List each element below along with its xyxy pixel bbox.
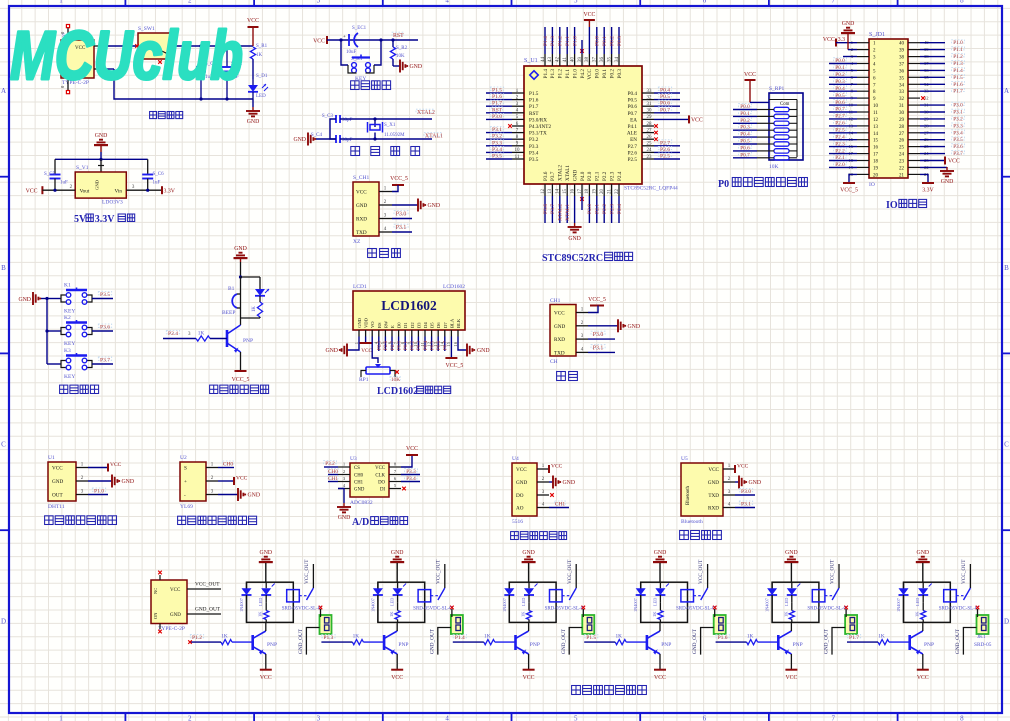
svg-text:4: 4 bbox=[445, 715, 449, 721]
svg-text:ADC0832: ADC0832 bbox=[350, 500, 373, 506]
svg-text:3.3V: 3.3V bbox=[95, 214, 116, 225]
svg-text:P1.7: P1.7 bbox=[492, 101, 502, 107]
svg-text:P2.1: P2.1 bbox=[595, 171, 601, 181]
svg-text:GND_OUT: GND_OUT bbox=[298, 628, 304, 654]
svg-text:26: 26 bbox=[647, 135, 653, 140]
svg-text:P1.1: P1.1 bbox=[565, 69, 571, 79]
svg-text:P2.5: P2.5 bbox=[660, 154, 670, 160]
svg-text:GND: GND bbox=[18, 297, 31, 303]
svg-text:P2.3: P2.3 bbox=[609, 171, 615, 181]
svg-text:D1: D1 bbox=[403, 322, 408, 328]
svg-text:S_JD1: S_JD1 bbox=[869, 32, 885, 38]
svg-text:P1.2: P1.2 bbox=[558, 36, 564, 46]
svg-text:P3.0: P3.0 bbox=[953, 103, 963, 109]
svg-text:VCC: VCC bbox=[247, 18, 259, 24]
svg-text:MCUclub: MCUclub bbox=[10, 17, 243, 94]
svg-text:1K: 1K bbox=[915, 611, 920, 617]
svg-text:CH0: CH0 bbox=[354, 474, 364, 479]
svg-text:P1.2: P1.2 bbox=[192, 635, 202, 641]
svg-text:S_V1: S_V1 bbox=[76, 165, 89, 171]
svg-text:GND: GND bbox=[941, 179, 954, 185]
svg-text:4: 4 bbox=[445, 0, 449, 5]
svg-text:1K: 1K bbox=[252, 306, 257, 312]
svg-text:GND: GND bbox=[391, 550, 404, 556]
svg-text:P3.1: P3.1 bbox=[396, 225, 407, 231]
svg-text:GND: GND bbox=[477, 348, 490, 354]
svg-text:1: 1 bbox=[59, 715, 63, 721]
svg-text:RST: RST bbox=[393, 33, 404, 39]
svg-text:VCC_OUT: VCC_OUT bbox=[830, 559, 836, 584]
svg-text:GND_OUT: GND_OUT bbox=[561, 628, 567, 654]
svg-text:7: 7 bbox=[831, 715, 835, 721]
svg-text:TYPE-C-2P: TYPE-C-2P bbox=[158, 626, 185, 632]
svg-text:LDO3V3: LDO3V3 bbox=[102, 200, 123, 206]
svg-text:35: 35 bbox=[899, 76, 905, 81]
svg-text:VCC_OUT: VCC_OUT bbox=[195, 582, 220, 588]
svg-text:P1.3: P1.3 bbox=[550, 69, 556, 79]
svg-text:3: 3 bbox=[317, 0, 321, 5]
svg-text:P3.5: P3.5 bbox=[100, 292, 110, 298]
svg-text:VCC: VCC bbox=[523, 675, 535, 681]
svg-text:GND: GND bbox=[749, 480, 762, 486]
svg-text:P1.0: P1.0 bbox=[572, 69, 578, 79]
svg-text:P1.3: P1.3 bbox=[550, 36, 556, 46]
svg-text:21: 21 bbox=[899, 173, 905, 178]
svg-text:P3.7: P3.7 bbox=[550, 204, 556, 214]
svg-text:5: 5 bbox=[574, 715, 578, 721]
svg-text:1K: 1K bbox=[878, 634, 885, 640]
svg-text:VCC_5: VCC_5 bbox=[390, 176, 408, 182]
svg-text:P1.3: P1.3 bbox=[953, 61, 963, 67]
svg-text:2: 2 bbox=[188, 0, 192, 5]
svg-text:VCC: VCC bbox=[917, 675, 929, 681]
svg-text:P2.3: P2.3 bbox=[835, 141, 845, 147]
svg-text:8: 8 bbox=[960, 0, 964, 5]
svg-text:P3.3: P3.3 bbox=[529, 144, 539, 150]
svg-text:27: 27 bbox=[899, 132, 905, 137]
svg-text:13: 13 bbox=[873, 125, 879, 130]
svg-text:K2: K2 bbox=[64, 315, 71, 321]
svg-text:P3.3: P3.3 bbox=[406, 469, 416, 475]
svg-text:P3.1: P3.1 bbox=[593, 346, 604, 352]
svg-text:S_C4: S_C4 bbox=[311, 133, 323, 138]
svg-text:37: 37 bbox=[899, 63, 905, 68]
svg-text:P3.0: P3.0 bbox=[741, 489, 751, 495]
svg-text:33: 33 bbox=[647, 89, 653, 94]
svg-text:43: 43 bbox=[548, 57, 553, 63]
svg-text:GND: GND bbox=[568, 236, 581, 242]
svg-text:GND: GND bbox=[170, 613, 181, 618]
svg-text:RXD: RXD bbox=[356, 217, 367, 223]
svg-text:P2.0: P2.0 bbox=[587, 171, 593, 181]
svg-text:GND: GND bbox=[410, 64, 423, 70]
svg-text:22: 22 bbox=[615, 189, 620, 195]
svg-text:VCC: VCC bbox=[691, 117, 703, 123]
svg-text:GND: GND bbox=[95, 179, 100, 190]
svg-text:P0.2: P0.2 bbox=[740, 118, 750, 124]
svg-text:GND: GND bbox=[842, 21, 855, 27]
svg-text:VO: VO bbox=[370, 321, 375, 328]
svg-text:P0.4: P0.4 bbox=[740, 132, 750, 138]
svg-text:17: 17 bbox=[873, 153, 879, 158]
svg-text:VCC_OUT: VCC_OUT bbox=[304, 559, 310, 584]
svg-text:42: 42 bbox=[556, 57, 561, 63]
svg-text:P2.2: P2.2 bbox=[835, 148, 845, 154]
svg-text:11.0592M: 11.0592M bbox=[384, 133, 405, 138]
svg-text:P3.2: P3.2 bbox=[492, 134, 502, 140]
svg-text:VCC: VCC bbox=[375, 466, 385, 471]
svg-text:P3.0: P3.0 bbox=[396, 212, 407, 218]
svg-text:27: 27 bbox=[647, 128, 653, 133]
svg-text:31: 31 bbox=[899, 104, 905, 109]
svg-text:RP1: RP1 bbox=[359, 377, 369, 383]
svg-text:P1.5: P1.5 bbox=[586, 635, 596, 641]
svg-text:1K: 1K bbox=[258, 611, 263, 617]
svg-text:P0: P0 bbox=[718, 179, 729, 190]
svg-text:P1.2: P1.2 bbox=[558, 69, 564, 79]
svg-text:VCC: VCC bbox=[583, 12, 595, 18]
svg-text:XTAL2: XTAL2 bbox=[558, 204, 564, 221]
svg-text:XTAL2: XTAL2 bbox=[417, 110, 435, 116]
svg-text:P3.4: P3.4 bbox=[953, 130, 963, 136]
svg-text:GND: GND bbox=[248, 493, 261, 499]
svg-text:VCC: VCC bbox=[26, 189, 38, 195]
svg-text:P0.6: P0.6 bbox=[740, 145, 750, 151]
svg-text:P1.1: P1.1 bbox=[953, 47, 963, 53]
svg-text:25: 25 bbox=[899, 146, 905, 151]
svg-text:P0.6: P0.6 bbox=[835, 100, 845, 106]
svg-text:S_R1: S_R1 bbox=[256, 44, 268, 49]
svg-text:VDD: VDD bbox=[364, 317, 369, 328]
svg-text:VCC_5: VCC_5 bbox=[588, 297, 606, 303]
svg-text:23: 23 bbox=[899, 160, 905, 165]
svg-text:E: E bbox=[390, 325, 395, 328]
svg-text:44: 44 bbox=[541, 57, 546, 63]
svg-text:GND: GND bbox=[516, 480, 527, 486]
svg-text:7: 7 bbox=[831, 0, 835, 5]
svg-text:CH0: CH0 bbox=[328, 469, 338, 475]
svg-text:P1.4: P1.4 bbox=[543, 69, 549, 79]
svg-text:1K: 1K bbox=[652, 611, 657, 617]
svg-text:P0.3: P0.3 bbox=[835, 79, 845, 85]
svg-text:39: 39 bbox=[578, 57, 583, 63]
svg-text:GND: GND bbox=[917, 550, 930, 556]
svg-text:P3.5: P3.5 bbox=[953, 137, 963, 143]
svg-text:38: 38 bbox=[585, 57, 590, 63]
svg-text:RST: RST bbox=[529, 111, 539, 117]
svg-text:RST: RST bbox=[492, 107, 503, 113]
svg-text:38: 38 bbox=[899, 56, 905, 61]
svg-text:CLK: CLK bbox=[375, 474, 385, 479]
svg-text:VCC: VCC bbox=[708, 467, 719, 473]
svg-text:DI: DI bbox=[380, 488, 385, 493]
svg-text:GND: GND bbox=[428, 203, 441, 209]
svg-text:1N4007: 1N4007 bbox=[502, 597, 507, 612]
svg-text:8: 8 bbox=[960, 715, 964, 721]
svg-text:SRD-05VDC-SL-C: SRD-05VDC-SL-C bbox=[939, 607, 979, 612]
svg-text:P3.6: P3.6 bbox=[543, 171, 549, 181]
svg-text:P3.0: P3.0 bbox=[593, 332, 604, 338]
svg-text:1N4007: 1N4007 bbox=[765, 597, 770, 612]
svg-text:P3.2: P3.2 bbox=[325, 461, 335, 467]
svg-text:SRD-05VDC-SL-C: SRD-05VDC-SL-C bbox=[807, 607, 847, 612]
svg-text:P3.5: P3.5 bbox=[529, 157, 539, 163]
svg-text:VCC: VCC bbox=[356, 190, 367, 196]
svg-text:18: 18 bbox=[873, 160, 879, 165]
svg-text:P4.1: P4.1 bbox=[628, 124, 638, 130]
svg-text:VCC: VCC bbox=[391, 675, 403, 681]
svg-text:P1.5: P1.5 bbox=[953, 75, 963, 81]
svg-text:B1: B1 bbox=[228, 286, 235, 292]
svg-text:1K: 1K bbox=[389, 611, 394, 617]
svg-text:P1.2: P1.2 bbox=[953, 54, 963, 60]
svg-text:15: 15 bbox=[873, 139, 879, 144]
svg-text:P1.4: P1.4 bbox=[455, 635, 465, 641]
svg-text:VCC: VCC bbox=[236, 476, 248, 482]
svg-text:P4.0: P4.0 bbox=[580, 171, 586, 181]
svg-text:+: + bbox=[184, 479, 187, 485]
svg-text:IO: IO bbox=[869, 182, 875, 188]
svg-text:STC89C52RC: STC89C52RC bbox=[542, 253, 603, 264]
svg-text:PNP: PNP bbox=[243, 338, 253, 344]
svg-text:GND_OUT: GND_OUT bbox=[955, 628, 961, 654]
svg-text:P2.5: P2.5 bbox=[628, 157, 638, 163]
svg-text:VCC: VCC bbox=[170, 588, 181, 593]
svg-text:VCC_OUT: VCC_OUT bbox=[698, 559, 704, 584]
svg-text:GND: GND bbox=[357, 317, 362, 328]
svg-text:CH: CH bbox=[550, 359, 558, 365]
svg-text:1K: 1K bbox=[256, 53, 263, 58]
svg-text:P1.5: P1.5 bbox=[529, 91, 539, 97]
svg-text:P3.1: P3.1 bbox=[741, 502, 751, 508]
svg-text:RXD: RXD bbox=[708, 506, 719, 512]
svg-text:32: 32 bbox=[647, 95, 653, 100]
svg-text:GND: GND bbox=[52, 479, 63, 485]
svg-text:P2.5: P2.5 bbox=[835, 128, 845, 134]
svg-text:1K: 1K bbox=[783, 611, 788, 617]
svg-text:10: 10 bbox=[515, 148, 521, 153]
svg-text:Vout: Vout bbox=[80, 189, 90, 195]
svg-text:GND: GND bbox=[785, 550, 798, 556]
svg-text:1N4007: 1N4007 bbox=[370, 597, 375, 612]
svg-text:P3.7: P3.7 bbox=[100, 358, 110, 364]
svg-text:D2: D2 bbox=[410, 322, 415, 328]
svg-text:P3.4: P3.4 bbox=[406, 476, 416, 482]
svg-text:P1.3: P1.3 bbox=[323, 635, 333, 641]
svg-text:34: 34 bbox=[615, 57, 620, 63]
svg-text:GND: GND bbox=[654, 550, 667, 556]
svg-text:10uF: 10uF bbox=[346, 50, 357, 55]
svg-text:GND: GND bbox=[234, 246, 247, 252]
svg-text:11: 11 bbox=[873, 111, 878, 116]
svg-text:1: 1 bbox=[59, 0, 63, 5]
svg-text:1K: 1K bbox=[221, 634, 228, 640]
svg-text:28: 28 bbox=[647, 122, 653, 127]
svg-text:20: 20 bbox=[873, 173, 879, 178]
svg-text:P0.0: P0.0 bbox=[595, 36, 601, 46]
svg-text:P0.5: P0.5 bbox=[628, 98, 638, 104]
svg-text:CH0: CH0 bbox=[223, 462, 234, 468]
svg-text:LCD1: LCD1 bbox=[353, 284, 367, 290]
svg-text:GND_OUT: GND_OUT bbox=[195, 607, 221, 613]
svg-text:BLK: BLK bbox=[456, 318, 461, 328]
svg-text:P0.5: P0.5 bbox=[835, 93, 845, 99]
svg-text:S_C3: S_C3 bbox=[322, 114, 334, 119]
svg-text:16: 16 bbox=[873, 146, 879, 151]
svg-text:1uF: 1uF bbox=[153, 181, 161, 186]
svg-text:A: A bbox=[1004, 87, 1009, 95]
svg-text:VCC_5: VCC_5 bbox=[840, 188, 858, 194]
svg-text:S_C6: S_C6 bbox=[153, 172, 165, 177]
svg-text:S_C5: S_C5 bbox=[44, 172, 56, 177]
svg-text:GND_OUT: GND_OUT bbox=[824, 628, 830, 654]
svg-text:15: 15 bbox=[563, 189, 568, 195]
svg-text:VCC_OUT: VCC_OUT bbox=[961, 559, 967, 584]
svg-text:P2.7: P2.7 bbox=[835, 114, 845, 120]
svg-text:VCC: VCC bbox=[406, 446, 418, 452]
svg-text:XTAL2: XTAL2 bbox=[558, 165, 564, 181]
svg-text:PNP: PNP bbox=[924, 642, 934, 648]
svg-text:SRD-05: SRD-05 bbox=[974, 642, 992, 648]
svg-text:10K: 10K bbox=[391, 377, 400, 383]
svg-text:OUT: OUT bbox=[52, 493, 63, 499]
svg-text:GND: GND bbox=[95, 133, 108, 139]
svg-text:5V: 5V bbox=[74, 214, 87, 225]
svg-text:NC: NC bbox=[153, 588, 158, 594]
svg-text:P0.2: P0.2 bbox=[609, 69, 615, 79]
svg-text:EA: EA bbox=[630, 117, 637, 123]
svg-text:P0.0: P0.0 bbox=[740, 104, 750, 110]
svg-text:P3.0/RX: P3.0/RX bbox=[529, 117, 547, 123]
svg-text:IO: IO bbox=[886, 200, 898, 211]
svg-text:P3.5: P3.5 bbox=[492, 154, 502, 160]
svg-text:U5: U5 bbox=[681, 456, 688, 462]
svg-text:GND_OUT: GND_OUT bbox=[429, 628, 435, 654]
svg-text:P1.7: P1.7 bbox=[849, 635, 859, 641]
svg-text:16: 16 bbox=[453, 341, 458, 346]
svg-text:D7: D7 bbox=[443, 322, 448, 328]
svg-text:36: 36 bbox=[600, 57, 605, 63]
svg-text:P0.2: P0.2 bbox=[835, 72, 845, 78]
svg-text:29: 29 bbox=[647, 115, 653, 120]
svg-text:K1: K1 bbox=[64, 283, 71, 289]
svg-text:P2.1: P2.1 bbox=[595, 204, 601, 214]
svg-text:GND: GND bbox=[293, 137, 306, 143]
svg-text:LED: LED bbox=[784, 598, 789, 606]
svg-text:32: 32 bbox=[899, 97, 905, 102]
svg-text:P3.2: P3.2 bbox=[529, 137, 539, 143]
svg-text:P0.3: P0.3 bbox=[617, 36, 623, 46]
svg-text:P2.4: P2.4 bbox=[835, 134, 845, 140]
svg-text:VCC: VCC bbox=[737, 464, 749, 470]
svg-text:VCC: VCC bbox=[110, 462, 122, 468]
svg-text:P1.0: P1.0 bbox=[572, 36, 578, 46]
svg-text:P1.0: P1.0 bbox=[94, 489, 104, 495]
svg-text:YL69: YL69 bbox=[180, 504, 193, 510]
svg-text:P3.7: P3.7 bbox=[550, 171, 556, 181]
svg-text:25: 25 bbox=[647, 142, 653, 147]
svg-text:P2.0: P2.0 bbox=[587, 204, 593, 214]
svg-text:C: C bbox=[1004, 441, 1009, 449]
svg-text:TXD: TXD bbox=[356, 230, 367, 236]
svg-text:19: 19 bbox=[593, 189, 598, 195]
svg-text:P4.2: P4.2 bbox=[580, 69, 586, 79]
svg-text:GND: GND bbox=[122, 479, 135, 485]
svg-text:12: 12 bbox=[541, 189, 546, 195]
svg-text:+: + bbox=[343, 35, 346, 40]
svg-text:Bluetooth: Bluetooth bbox=[686, 485, 691, 505]
svg-text:VCC: VCC bbox=[785, 675, 797, 681]
svg-text:B: B bbox=[1, 264, 6, 272]
svg-text:P0.7: P0.7 bbox=[740, 152, 750, 158]
svg-text:40: 40 bbox=[570, 57, 575, 63]
svg-text:GND_OUT: GND_OUT bbox=[692, 628, 698, 654]
svg-text:PNP: PNP bbox=[793, 642, 803, 648]
svg-text:LCD1602: LCD1602 bbox=[377, 386, 418, 397]
svg-text:GND: GND bbox=[572, 170, 578, 181]
svg-text:GND: GND bbox=[356, 203, 367, 209]
svg-text:GND: GND bbox=[354, 488, 365, 493]
svg-text:A/D: A/D bbox=[352, 517, 369, 528]
svg-text:P3.7: P3.7 bbox=[953, 151, 963, 157]
svg-text:GND: GND bbox=[708, 480, 719, 486]
svg-text:24: 24 bbox=[899, 153, 905, 158]
svg-text:VCC: VCC bbox=[313, 39, 325, 45]
svg-text:S_EC1: S_EC1 bbox=[352, 26, 367, 31]
svg-text:CH1: CH1 bbox=[555, 502, 566, 508]
svg-text:P1.1: P1.1 bbox=[565, 36, 571, 46]
svg-text:13: 13 bbox=[548, 189, 553, 195]
svg-text:34: 34 bbox=[899, 83, 905, 88]
svg-text:LED: LED bbox=[256, 94, 266, 99]
svg-text:SRD-05VDC-SL-C: SRD-05VDC-SL-C bbox=[282, 607, 322, 612]
svg-text:RXD: RXD bbox=[554, 337, 565, 343]
svg-text:D: D bbox=[1004, 618, 1009, 626]
svg-text:GND: GND bbox=[338, 515, 351, 521]
svg-text:C: C bbox=[1, 441, 6, 449]
svg-text:1K: 1K bbox=[615, 634, 622, 640]
svg-text:41: 41 bbox=[563, 57, 568, 63]
svg-text:LED: LED bbox=[258, 598, 263, 606]
svg-text:15: 15 bbox=[446, 341, 451, 346]
svg-text:33: 33 bbox=[899, 90, 905, 95]
svg-text:10K: 10K bbox=[769, 164, 779, 170]
svg-text:LED: LED bbox=[521, 598, 526, 606]
svg-text:STC89C52RC_LQFP44: STC89C52RC_LQFP44 bbox=[624, 186, 678, 192]
svg-text:VCC: VCC bbox=[516, 467, 527, 473]
svg-text:GND: GND bbox=[247, 119, 260, 125]
svg-text:P1.4: P1.4 bbox=[953, 68, 963, 74]
svg-text:U3: U3 bbox=[350, 456, 357, 462]
svg-text:U1: U1 bbox=[48, 455, 55, 461]
svg-text:37: 37 bbox=[593, 57, 598, 63]
svg-text:P2.6: P2.6 bbox=[660, 147, 670, 153]
svg-text:D: D bbox=[1, 618, 6, 626]
svg-text:D6: D6 bbox=[436, 322, 441, 328]
svg-text:P2.4: P2.4 bbox=[617, 204, 623, 214]
svg-text:KEY: KEY bbox=[64, 341, 75, 347]
svg-text:VCC: VCC bbox=[744, 72, 756, 78]
svg-text:6: 6 bbox=[703, 715, 707, 721]
svg-text:P3.3: P3.3 bbox=[953, 123, 963, 129]
svg-text:P0.0: P0.0 bbox=[595, 69, 601, 79]
svg-text:30: 30 bbox=[899, 111, 905, 116]
svg-text:P0.6: P0.6 bbox=[660, 101, 670, 107]
svg-text:5: 5 bbox=[574, 0, 578, 5]
svg-text:1K: 1K bbox=[747, 634, 754, 640]
svg-text:Com: Com bbox=[780, 102, 790, 107]
svg-text:12: 12 bbox=[873, 118, 879, 123]
